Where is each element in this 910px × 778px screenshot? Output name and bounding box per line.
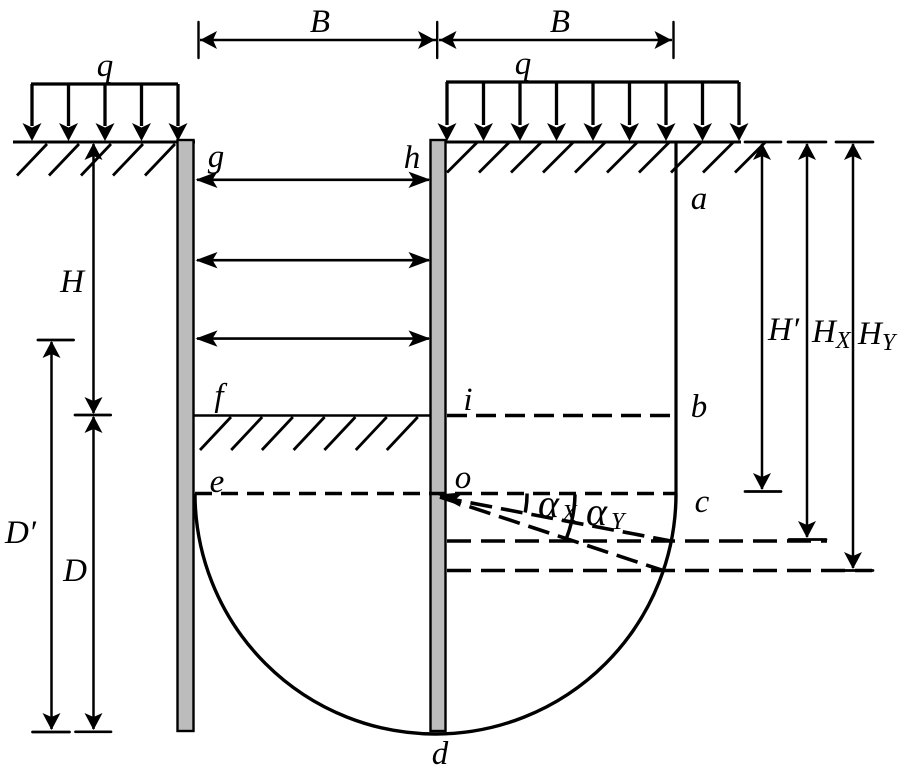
surcharge q right: arrowheads	[438, 123, 749, 141]
floor hatch	[200, 417, 418, 450]
ground line left	[13, 141, 195, 144]
dashed level Y	[447, 569, 872, 573]
dashed line e-c	[195, 492, 676, 496]
dimension B left: ticks	[199, 22, 674, 58]
svg-text:D′: D′	[4, 515, 37, 551]
dimension HX	[788, 142, 826, 540]
angle arc alpha X	[525, 494, 527, 513]
dimension B right: line and arrows	[439, 31, 672, 49]
dimension B left: line and arrows	[200, 31, 436, 49]
svg-text:g: g	[208, 139, 225, 175]
dashed ray oX	[440, 497, 671, 541]
strut arrow 2	[196, 252, 431, 268]
svg-text:H: H	[59, 264, 86, 300]
svg-text:c: c	[695, 484, 710, 520]
dimension H'	[745, 142, 781, 492]
dimension D'	[33, 340, 74, 732]
strut arrow 3	[196, 330, 431, 346]
excavation floor line f-i	[194, 414, 430, 417]
svg-text:H′: H′	[767, 312, 800, 348]
arrowhead at o	[436, 487, 464, 507]
svg-text:h: h	[404, 140, 421, 176]
slip circle e-d-c	[195, 494, 676, 735]
svg-text:α: α	[538, 481, 560, 526]
svg-text:o: o	[455, 460, 472, 496]
surcharge q left: arrowheads	[23, 123, 188, 141]
svg-text:X: X	[561, 501, 578, 527]
dimension H	[75, 143, 111, 415]
svg-text:B: B	[550, 4, 570, 40]
svg-text:d: d	[432, 736, 449, 772]
svg-text:α: α	[586, 489, 608, 534]
ground line right	[431, 141, 741, 144]
ground hatch left	[17, 144, 175, 176]
dimension HY	[836, 142, 873, 571]
svg-text:q: q	[97, 48, 114, 84]
svg-text:a: a	[691, 181, 708, 217]
dashed level X	[447, 539, 827, 543]
svg-text:q: q	[515, 46, 532, 82]
angle arc alpha Y	[567, 495, 575, 538]
ground hatch right	[447, 142, 766, 173]
wall left	[178, 140, 194, 731]
vertical line a-b-c	[674, 142, 677, 494]
svg-text:b: b	[691, 389, 708, 425]
svg-text:D: D	[62, 553, 87, 589]
dashed line i-b	[447, 414, 676, 418]
strut arrow 1 (g-h)	[196, 172, 431, 188]
surcharge q right: top line	[446, 82, 739, 125]
wall right	[431, 140, 446, 731]
dimension D	[76, 416, 112, 732]
svg-text:i: i	[463, 382, 472, 418]
svg-text:B: B	[310, 4, 330, 40]
surcharge q left: top line	[31, 84, 178, 126]
dashed ray oY	[440, 497, 663, 571]
svg-text:e: e	[210, 464, 225, 500]
